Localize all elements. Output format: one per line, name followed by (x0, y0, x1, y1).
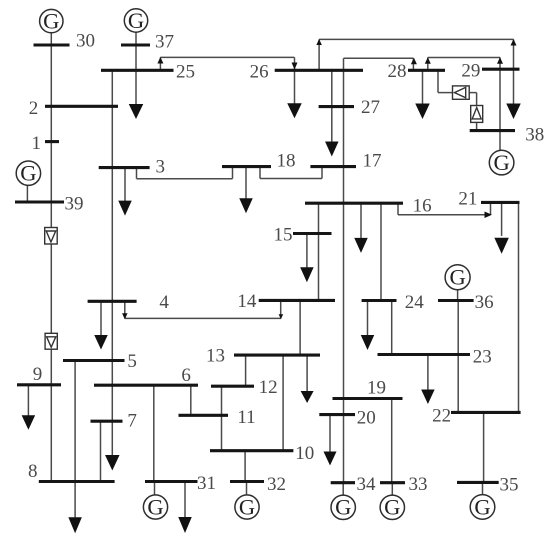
svg-text:22: 22 (432, 406, 451, 427)
svg-text:31: 31 (197, 473, 216, 494)
svg-text:38: 38 (525, 125, 544, 146)
svg-text:34: 34 (357, 474, 377, 495)
svg-text:35: 35 (500, 475, 519, 496)
svg-text:11: 11 (237, 407, 255, 428)
svg-text:23: 23 (473, 346, 492, 367)
svg-text:3: 3 (156, 157, 166, 178)
svg-text:6: 6 (181, 365, 191, 386)
svg-text:37: 37 (155, 32, 174, 53)
svg-text:G: G (384, 495, 400, 520)
svg-text:G: G (474, 494, 490, 519)
svg-text:26: 26 (250, 62, 269, 83)
svg-text:18: 18 (277, 151, 296, 172)
svg-text:9: 9 (33, 364, 43, 385)
svg-text:G: G (449, 265, 465, 290)
svg-text:27: 27 (361, 97, 380, 118)
svg-text:20: 20 (357, 407, 376, 428)
svg-text:39: 39 (65, 194, 84, 215)
svg-text:13: 13 (206, 346, 225, 367)
svg-text:33: 33 (409, 474, 428, 495)
svg-text:25: 25 (176, 62, 195, 83)
svg-text:15: 15 (274, 225, 293, 246)
svg-text:2: 2 (29, 98, 39, 119)
svg-text:1: 1 (32, 133, 42, 154)
svg-text:5: 5 (127, 351, 136, 372)
svg-text:28: 28 (388, 61, 407, 82)
svg-text:G: G (493, 150, 509, 175)
svg-text:29: 29 (461, 60, 480, 81)
svg-text:30: 30 (76, 31, 95, 52)
svg-text:G: G (20, 161, 36, 186)
svg-text:4: 4 (159, 292, 169, 313)
svg-text:10: 10 (295, 443, 314, 464)
svg-text:24: 24 (405, 292, 425, 313)
svg-text:7: 7 (127, 411, 136, 432)
svg-text:8: 8 (28, 461, 38, 482)
svg-text:G: G (147, 494, 163, 519)
svg-text:32: 32 (267, 474, 286, 495)
svg-text:12: 12 (259, 377, 278, 398)
svg-text:G: G (239, 494, 255, 519)
svg-text:36: 36 (475, 292, 494, 313)
svg-text:G: G (335, 495, 351, 520)
svg-text:G: G (128, 8, 144, 33)
svg-text:16: 16 (413, 196, 432, 217)
svg-text:G: G (43, 9, 59, 34)
svg-text:17: 17 (363, 151, 382, 172)
svg-text:21: 21 (458, 189, 477, 210)
svg-text:14: 14 (237, 291, 257, 312)
svg-text:19: 19 (367, 377, 386, 398)
